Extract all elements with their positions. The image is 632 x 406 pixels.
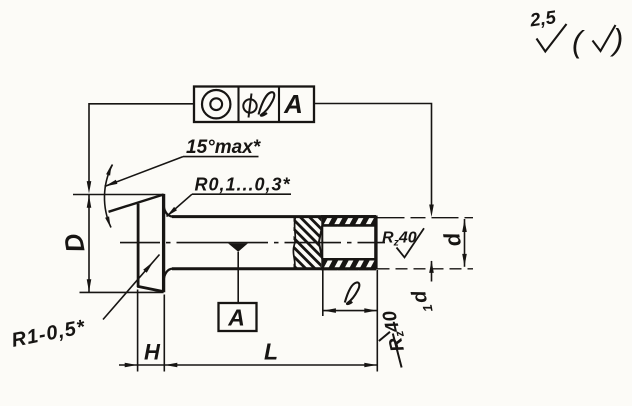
svg-text:2,5: 2,5 xyxy=(528,6,558,31)
svg-text:R0,1...0,3*: R0,1...0,3* xyxy=(195,175,291,195)
svg-text:d: d xyxy=(408,288,432,305)
svg-text:): ) xyxy=(609,22,623,57)
svg-text:15°max*: 15°max* xyxy=(186,137,262,158)
svg-text:D: D xyxy=(58,231,91,255)
svg-text:L: L xyxy=(264,339,278,365)
svg-text:Rz40: Rz40 xyxy=(379,308,410,354)
svg-text:H: H xyxy=(144,340,161,365)
svg-text:1: 1 xyxy=(420,303,436,313)
svg-text:R1-0,5*: R1-0,5* xyxy=(10,316,88,352)
svg-text:d: d xyxy=(439,230,466,248)
svg-text:A: A xyxy=(283,89,303,119)
svg-text:(: ( xyxy=(572,24,585,59)
svg-text:A: A xyxy=(227,305,245,331)
